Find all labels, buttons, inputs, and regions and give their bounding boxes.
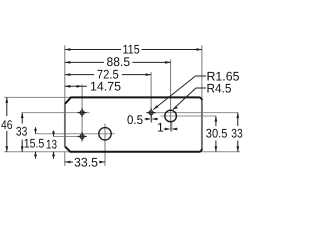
hole H3 right small [149, 111, 153, 115]
extension line: right small hole vertical x=151.1 [150, 72, 152, 123]
plate outline left edge [64, 104, 66, 146]
extension line: left circle vertical x=104.5 [104, 124, 106, 167]
svg-text:0.5: 0.5 [127, 113, 143, 127]
dimension 46 line [6, 97, 8, 151]
dimension 72.5 line [65, 74, 151, 76]
centerline through left circle y=133.5 [36, 133, 116, 135]
svg-text:33.5: 33.5 [74, 156, 98, 170]
dimension 14.75 line [65, 85, 87, 87]
dimension 46 arrows [5, 97, 8, 103]
centerline through lower-left hole y=136.5 [54, 136, 88, 138]
circle C1 left large [99, 128, 111, 140]
dimension 14.75 arrows [65, 85, 71, 88]
leader R1.65 [153, 76, 206, 110]
svg-text:13: 13 [46, 137, 57, 151]
extension line: left edge extended below plate [64, 152, 66, 166]
hole H3 center mark [147, 108, 156, 117]
extension line: hole1 vertical x=82.1 [81, 84, 83, 141]
extension line: bottom edge extended left and right [4, 151, 240, 153]
dimension 115 line [65, 49, 202, 51]
svg-text:14.75: 14.75 [90, 79, 121, 93]
dimension 72.5 arrows [65, 73, 71, 76]
svg-text:1: 1 [157, 120, 164, 134]
extension line: right circle vertical x=170.3 [170, 60, 172, 132]
hole H2 lower-left small [80, 135, 84, 139]
dimension 33 right line [237, 113, 239, 152]
dimension 30.5 arrows [215, 116, 218, 122]
dimension 33 right arrows [236, 113, 239, 119]
tick second line of 0.5 dim [151, 117, 153, 123]
extension line: right edge extended above plate [201, 45, 203, 100]
svg-text:30.5: 30.5 [206, 127, 228, 141]
dimension 30.5 line [215, 116, 217, 152]
dimension 33 left line [21, 113, 23, 152]
hole H1 center mark [78, 108, 87, 117]
circle C2 right large [165, 110, 177, 122]
leader R4.5 [173, 88, 206, 110]
svg-text:33: 33 [231, 127, 242, 141]
dimension 13 arrows (outside) [53, 131, 55, 137]
hole H2 center mark [78, 132, 87, 141]
svg-text:15.5: 15.5 [24, 137, 45, 151]
centerline through right small hole y=112.6 [147, 112, 239, 114]
dimension 33.5 line [65, 161, 105, 163]
centerline through small holes y=112.6 [22, 112, 90, 114]
svg-text:R4.5: R4.5 [207, 82, 232, 96]
plate outline top edge with right fillet and left chamfer [65, 97, 202, 104]
dimension 88.5 arrows [65, 61, 71, 64]
extension line: top edge extended left for 46 dim [4, 96, 70, 98]
dimension 33.5 arrows [65, 161, 71, 164]
dimension 115 arrows [65, 48, 71, 51]
extension line: left edge extended above plate [64, 45, 66, 104]
tick second line of 1 dim [171, 122, 173, 132]
plate outline bottom edge with right fillet and left chamfer [65, 146, 202, 151]
plate outline right edge [201, 100, 203, 149]
svg-text:46: 46 [1, 118, 13, 132]
dimension 33 left arrows [21, 113, 24, 119]
dimension 88.5 line [65, 61, 171, 63]
centerline through right circle y=115.6 [161, 115, 216, 117]
dimension 15.5 arrows (outside) [35, 127, 37, 134]
hole H1 upper-left small [80, 111, 84, 115]
